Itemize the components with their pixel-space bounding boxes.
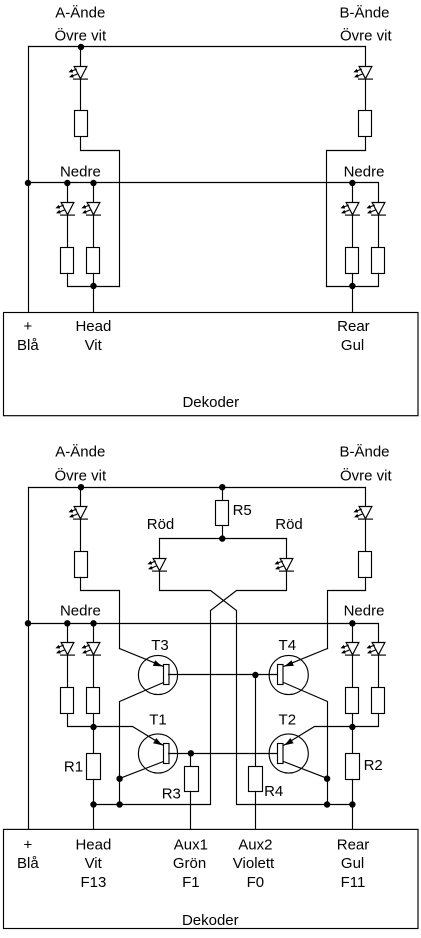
node Nedre / LED A2 (lower): [90, 620, 96, 626]
svg-text:Blå: Blå: [17, 337, 39, 354]
wire head node to decoder: [93, 274, 95, 313]
wire to LED B1: [352, 183, 354, 203]
svg-text:Rear: Rear: [337, 837, 370, 854]
wire T4 collector down to rear rail: [284, 683, 328, 805]
LED B lower white 2 (lower): [366, 643, 385, 656]
svg-text:Övre vit: Övre vit: [54, 27, 107, 45]
svg-text:Grön: Grön: [173, 855, 206, 872]
wire resistor B jog down to rear node: [327, 138, 366, 287]
wire LED B to resistor (lower): [365, 520, 367, 552]
svg-text:R1: R1: [64, 758, 83, 775]
resistor (B lower 2): [372, 248, 385, 274]
wire T2 collector lead: [284, 762, 328, 779]
arrow T3 emitter: [153, 660, 162, 666]
resistor (A lower 1, lower schematic): [61, 688, 74, 714]
svg-text:Vit: Vit: [85, 855, 103, 872]
node rear rail / R2: [349, 801, 355, 807]
wire to LED B anode (lower): [365, 488, 367, 507]
svg-text:Nedre: Nedre: [344, 602, 385, 619]
wire red LED A crossover to rear node: [160, 572, 353, 805]
node T3/T1 collectors: [116, 776, 122, 782]
wire T3-T4 base line: [169, 674, 278, 676]
wire to LED A1 (lower): [67, 624, 69, 643]
svg-text:B-Ände: B-Ände: [339, 443, 389, 460]
svg-text:T1: T1: [149, 712, 167, 729]
svg-text:Head: Head: [75, 837, 111, 854]
wire LED B to resistor: [365, 80, 367, 111]
LED A lower white 1 (lower): [55, 643, 74, 656]
node base line / R4 lead: [252, 672, 258, 678]
svg-text:Övre vit: Övre vit: [340, 27, 393, 45]
wire Nedre rail (lower): [29, 624, 379, 643]
svg-text:T2: T2: [279, 712, 297, 729]
transistor T2: [269, 734, 308, 773]
transistor T4: [269, 655, 308, 694]
svg-text:Gul: Gul: [341, 855, 364, 872]
svg-text:R4: R4: [264, 783, 283, 800]
svg-text:Gul: Gul: [341, 337, 364, 354]
node Nedre / LED A2: [90, 180, 96, 186]
wire to R2: [352, 715, 354, 754]
wire LED B1 to resistor: [352, 215, 354, 248]
svg-text:Head: Head: [75, 318, 111, 335]
resistor (B upper, lower schematic): [359, 552, 372, 578]
LED B upper white (lower): [353, 507, 372, 520]
LED B upper white: [353, 67, 372, 80]
svg-text:Dekoder: Dekoder: [182, 912, 239, 929]
node red LED feed: [219, 535, 225, 541]
resistor (B upper): [359, 111, 372, 137]
svg-text:F0: F0: [247, 874, 265, 891]
svg-text:Nedre: Nedre: [344, 164, 385, 181]
svg-text:F13: F13: [80, 874, 106, 891]
arrow T1 emitter: [153, 738, 162, 745]
wire to red LED A: [159, 539, 161, 559]
wire B lower junction line (lower): [353, 715, 379, 727]
wire to LED A anode: [80, 47, 82, 67]
svg-text:Övre vit: Övre vit: [340, 466, 393, 484]
wire to R1: [93, 715, 95, 754]
node Nedre / LED A1: [64, 180, 70, 186]
svg-text:+: +: [24, 318, 33, 335]
svg-text:Nedre: Nedre: [60, 164, 101, 181]
svg-text:Dekoder: Dekoder: [182, 394, 239, 411]
LED A lower white 2 (lower): [81, 643, 100, 656]
wire lower left + rail: [28, 488, 30, 830]
svg-text:T3: T3: [151, 637, 169, 654]
resistor (A upper): [75, 111, 88, 137]
wire to LED A2 (lower): [93, 624, 95, 643]
svg-text:Rear: Rear: [337, 318, 370, 335]
resistor (B lower 1, lower schematic): [346, 688, 359, 714]
wire LED A2 to resistor (lower): [93, 655, 95, 688]
svg-text:F1: F1: [182, 874, 200, 891]
node T4/T2 collectors: [324, 776, 330, 782]
LED B lower white 2: [366, 203, 385, 216]
wire T3 collector down to head rail: [120, 683, 164, 805]
decoder box (lower schematic): [4, 829, 419, 928]
arrow T2 emitter: [285, 738, 294, 745]
svg-text:Röd: Röd: [275, 516, 303, 533]
LED A upper white: [68, 67, 87, 80]
wire resistor A jog to T3 emitter: [81, 578, 120, 649]
node rail / LED A junction (lower): [78, 484, 84, 490]
wire left + rail down to decoder: [28, 47, 30, 313]
svg-text:Aux2: Aux2: [238, 837, 272, 854]
LED A lower white 2: [81, 203, 100, 216]
node rear junction: [349, 283, 355, 289]
wire LED A to resistor: [80, 80, 82, 111]
wire to LED A2: [93, 183, 95, 203]
wire lower top supply rail: [29, 487, 366, 489]
wire to LED B1 (lower): [352, 624, 354, 643]
node A lower junction / R1: [90, 724, 96, 730]
svg-text:Aux1: Aux1: [174, 837, 208, 854]
wire LED B2 to resistor: [378, 215, 380, 248]
wire T3 emitter lead: [120, 649, 164, 667]
wire resistor B jog to T4 emitter: [328, 578, 366, 649]
wire LED B2 to resistor (lower): [378, 655, 380, 688]
svg-text:Vit: Vit: [85, 337, 103, 354]
svg-text:Violett: Violett: [233, 855, 275, 872]
resistor (A lower 2): [87, 248, 100, 274]
node rear rail / collector line: [324, 801, 330, 807]
wire R5 to red LED feed: [222, 526, 224, 539]
LED B lower white 1 (lower): [340, 643, 359, 656]
wire LED A2 to resistor: [93, 215, 95, 248]
svg-text:R3: R3: [162, 786, 181, 803]
wire B lower junction to T2 emitter: [284, 727, 353, 746]
resistor R4: [249, 767, 263, 792]
LED red A: [147, 559, 166, 572]
transistor T1: [138, 734, 177, 773]
wire rear node to decoder: [352, 274, 354, 313]
wire red LED B crossover to head node: [94, 572, 287, 805]
wire A lower junction to T1 emitter: [68, 715, 164, 746]
wire T1-T2 base line: [169, 753, 278, 755]
resistor R2: [346, 754, 360, 780]
LED A upper white (lower): [68, 507, 87, 520]
wire red LED feed line: [160, 538, 287, 540]
svg-text:Röd: Röd: [147, 516, 175, 533]
svg-text:B-Ände: B-Ände: [339, 5, 389, 22]
wire rail to R5: [222, 488, 224, 501]
svg-text:A-Ände: A-Ände: [55, 443, 105, 460]
wire R2 to rear terminal: [352, 780, 354, 830]
resistor R3: [185, 767, 199, 792]
wire LED A1 to resistor (lower): [67, 655, 69, 688]
wire LED B1 to resistor (lower): [352, 655, 354, 688]
transistor T3: [138, 655, 177, 694]
svg-text:Blå: Blå: [17, 855, 39, 872]
node + rail / Nedre rail: [25, 180, 31, 186]
node Nedre / LED A1 (lower): [64, 620, 70, 626]
wire R3 to Aux1 terminal: [190, 792, 192, 830]
svg-text:Nedre: Nedre: [60, 602, 101, 619]
wire T1 collector lead: [120, 762, 164, 779]
svg-text:R5: R5: [233, 502, 252, 519]
resistor (B lower 2, lower schematic): [372, 688, 385, 714]
wire LED A1 to resistor: [67, 215, 69, 248]
node + rail / Nedre (lower): [25, 620, 31, 626]
wire base node to R3: [190, 754, 192, 767]
wire to LED A1: [67, 183, 69, 203]
LED B lower white 1: [340, 203, 359, 216]
wire Nedre rail: [29, 183, 379, 203]
resistor R5: [216, 501, 229, 526]
resistor (A lower 2, lower schematic): [87, 688, 100, 714]
node head junction: [90, 283, 96, 289]
svg-text:R2: R2: [364, 757, 383, 774]
svg-text:T4: T4: [279, 637, 297, 654]
resistor (B lower 1): [346, 248, 359, 274]
resistor (A upper, lower schematic): [75, 552, 88, 578]
node base line / R3: [188, 750, 194, 756]
decoder box (top schematic): [4, 313, 419, 416]
wire B lower junction line: [327, 274, 379, 287]
node Nedre / LED B1 (lower): [349, 620, 355, 626]
wire R1 to head terminal: [93, 780, 95, 830]
resistor (A lower 1): [61, 248, 74, 274]
svg-text:A-Ände: A-Ände: [55, 5, 105, 22]
node head rail / R1: [90, 801, 96, 807]
node head rail / collector line: [116, 801, 122, 807]
LED red B: [274, 559, 293, 572]
wire R4 to Aux2 terminal: [255, 792, 257, 830]
arrow T4 emitter: [285, 660, 294, 666]
wire LED A to resistor (lower): [80, 520, 82, 552]
wire resistor A jog down to head node: [81, 138, 120, 287]
node Nedre / LED B1: [349, 180, 355, 186]
svg-text:Övre vit: Övre vit: [54, 466, 107, 484]
resistor R1: [87, 754, 101, 780]
wire A lower junction line: [68, 274, 120, 287]
LED A lower white 1: [55, 203, 74, 216]
svg-text:F11: F11: [341, 874, 366, 891]
wire to red LED B: [286, 539, 288, 559]
wire top supply rail: [29, 46, 366, 48]
wire T4 emitter lead: [284, 649, 328, 667]
node rail / R5: [219, 484, 225, 490]
wire base node to R4: [255, 675, 257, 767]
svg-text:+: +: [24, 837, 33, 854]
wire to LED A anode (lower): [80, 488, 82, 507]
node B lower junction / R2: [349, 724, 355, 730]
wire to LED B anode: [365, 47, 367, 67]
node top rail / LED A junction: [78, 44, 84, 50]
